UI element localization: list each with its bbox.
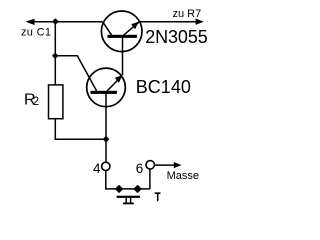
- resistor R2: [49, 85, 63, 119]
- wire to R7: [140, 21, 197, 23]
- transistor Q1 2N3055: [101, 11, 142, 75]
- transistor Q2 BC140: [87, 68, 126, 162]
- arrow Masse: [174, 162, 182, 168]
- wire R2 bottom: [55, 120, 106, 140]
- wire to Masse: [154, 164, 175, 166]
- node junction A: [53, 19, 58, 24]
- terminal 6: [146, 161, 154, 169]
- svg-text:6: 6: [136, 161, 144, 176]
- svg-text:4: 4: [93, 161, 101, 176]
- svg-text:BC140: BC140: [136, 77, 191, 97]
- partial symbol T (cropped neighbour): [155, 193, 161, 201]
- node junction C: [104, 137, 109, 142]
- ground: [117, 196, 140, 205]
- wire from terminal 4 down: [106, 171, 150, 189]
- terminal 4: [102, 162, 110, 170]
- node junction D: [116, 186, 122, 192]
- node junction B: [53, 53, 58, 58]
- node junction E: [135, 186, 141, 192]
- svg-text:Masse: Masse: [167, 170, 199, 182]
- svg-text:2N3055: 2N3055: [145, 27, 208, 47]
- wire to BC140 base-feed (horizontal + diagonal): [55, 56, 96, 91]
- wire top horizontal to C1: [33, 21, 103, 23]
- wire from terminal 6 down: [149, 169, 151, 189]
- svg-text:zu C1: zu C1: [21, 26, 51, 38]
- arrow to C1: [26, 19, 35, 25]
- arrow to R7: [196, 19, 204, 25]
- wire vertical left rail: [54, 22, 56, 85]
- svg-text:zu R7: zu R7: [173, 8, 202, 20]
- svg-text:2: 2: [33, 96, 39, 108]
